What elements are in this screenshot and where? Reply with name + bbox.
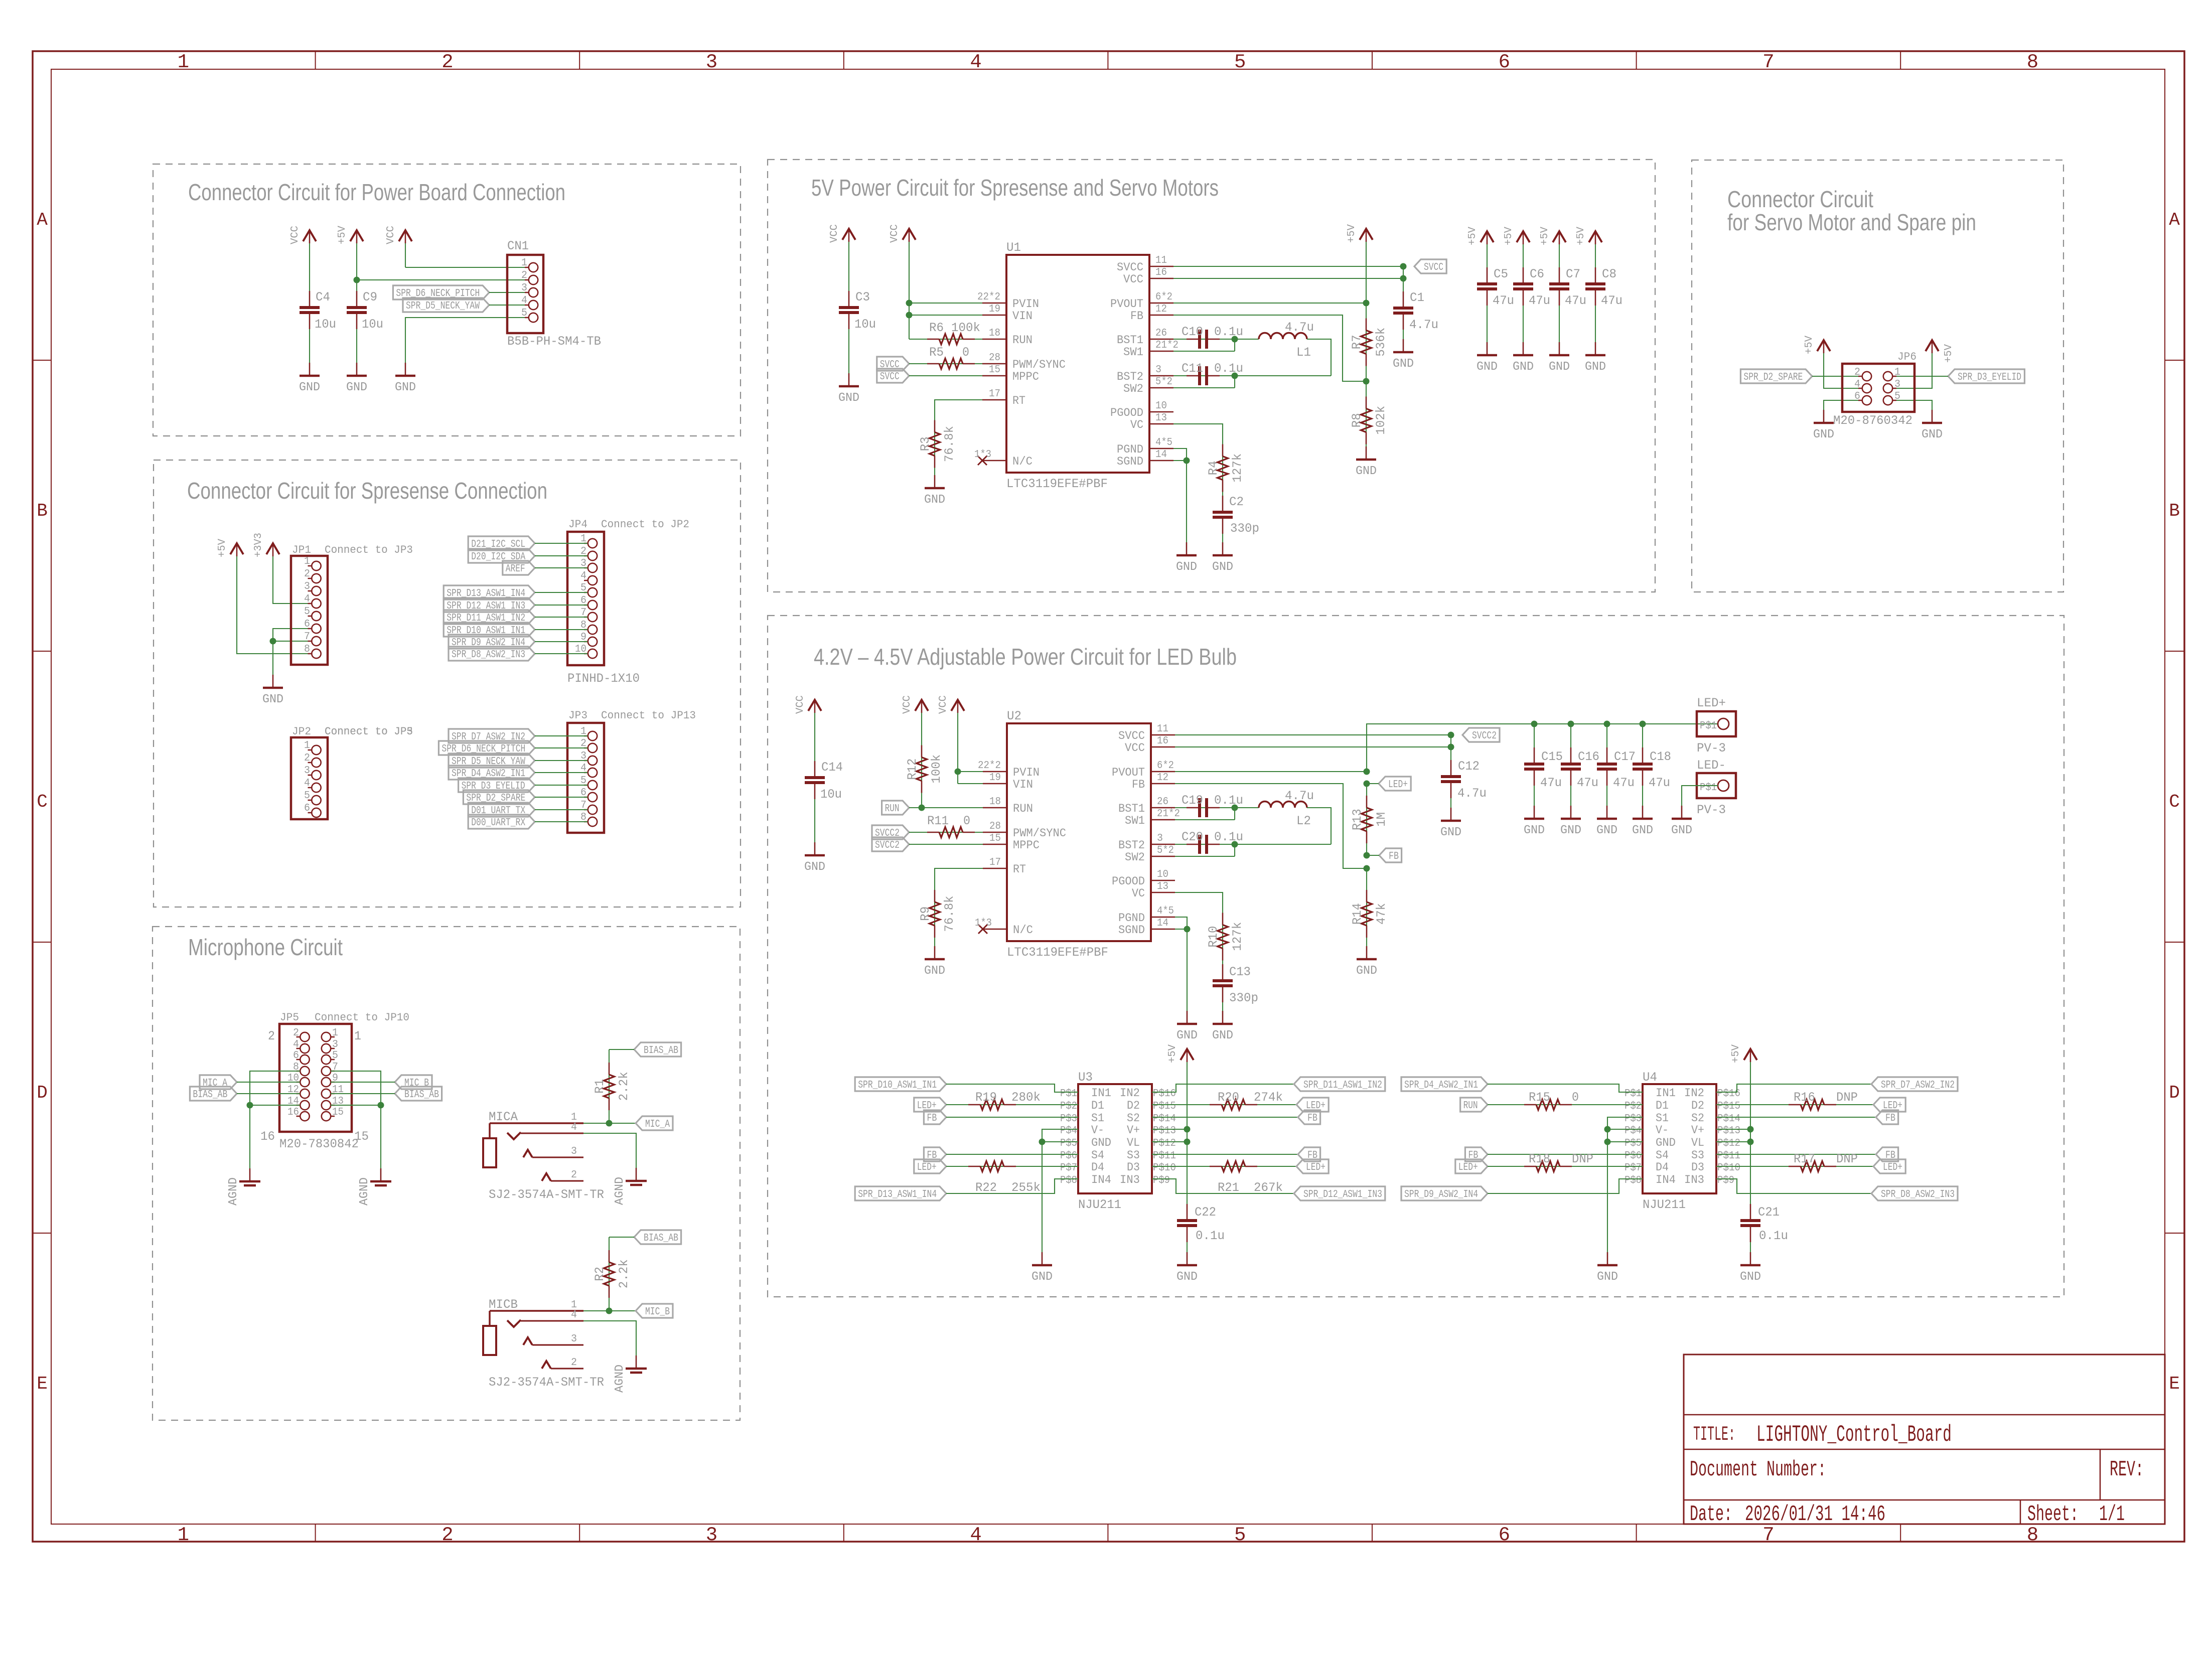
wire CN1 pin3 <box>489 292 529 293</box>
svg-text:Connect to JP3: Connect to JP3 <box>325 544 413 556</box>
wire JP5 pin8 to AGND <box>250 1071 300 1181</box>
junction <box>1747 1126 1754 1133</box>
analog ground AGND <box>636 1355 637 1369</box>
IC U1 LTC3119EFE#PBF <box>1006 255 1149 473</box>
resistor R1 2.2k <box>609 1049 610 1123</box>
svg-text:4.7u: 4.7u <box>1457 786 1487 801</box>
svg-text:3: 3 <box>706 51 717 73</box>
resistor R3 76.8k on RT <box>935 400 982 488</box>
svg-text:P$2: P$2 <box>1625 1101 1642 1112</box>
svg-text:R2: R2 <box>593 1267 607 1281</box>
junction <box>354 277 360 283</box>
svg-text:2: 2 <box>441 1524 453 1546</box>
svg-text:4: 4 <box>970 51 981 73</box>
svg-text:N/C: N/C <box>1012 455 1033 468</box>
resistor R6 100k on RUN <box>909 339 982 340</box>
svg-text:D00_UART_RX: D00_UART_RX <box>471 817 525 829</box>
ground under U4 <box>1607 1252 1608 1265</box>
svg-text:GND: GND <box>1356 964 1377 978</box>
svg-text:330p: 330p <box>1230 521 1259 536</box>
svg-text:FB: FB <box>1132 778 1145 791</box>
svg-text:LTC3119EFE#PBF: LTC3119EFE#PBF <box>1007 945 1108 960</box>
svg-text:47u: 47u <box>1577 776 1598 790</box>
wire PVOUT to LED+ net <box>1175 771 1367 772</box>
wire BST1 node to SW1 <box>1234 808 1235 820</box>
svg-text:3: 3 <box>1157 833 1163 844</box>
net flag SPR_D9_ASW2_IN4 <box>1401 1186 1488 1200</box>
svg-text:10: 10 <box>1157 869 1168 880</box>
svg-text:14: 14 <box>1157 918 1168 929</box>
svg-text:GND: GND <box>1031 1270 1053 1284</box>
svg-text:MIC_B: MIC_B <box>645 1306 670 1318</box>
net flag RUN <box>882 801 909 815</box>
svg-text:BST2: BST2 <box>1117 370 1143 383</box>
svg-text:SPR_D4_ASW2_IN1: SPR_D4_ASW2_IN1 <box>1404 1080 1478 1091</box>
svg-text:VC: VC <box>1132 887 1145 900</box>
svg-text:MPPC: MPPC <box>1013 839 1040 852</box>
svg-text:3: 3 <box>571 1333 577 1345</box>
junction <box>1232 841 1238 848</box>
ground under C4 <box>309 363 311 376</box>
svg-text:LED+: LED+ <box>917 1162 937 1173</box>
net flag LED+ <box>914 1098 946 1112</box>
svg-text:S3: S3 <box>1127 1149 1140 1162</box>
connector JP1 <box>291 556 328 665</box>
resistor R22 255k on U3 D4 <box>946 1166 1078 1167</box>
junction <box>1364 852 1370 859</box>
svg-text:1*3: 1*3 <box>975 918 992 929</box>
ground under C14 <box>814 842 816 855</box>
connector CN1 <box>507 255 543 333</box>
svg-text:PGND: PGND <box>1118 912 1145 925</box>
analog ground AGND <box>249 1168 251 1181</box>
wire CN1 pin5 to ground <box>405 318 529 376</box>
svg-text:10u: 10u <box>315 317 336 332</box>
net flag SPR_D7_ASW2_IN2 <box>449 729 535 743</box>
VCC supply arrow <box>309 242 310 308</box>
svg-text:U1: U1 <box>1006 240 1021 255</box>
svg-text:P$3: P$3 <box>1060 1113 1077 1125</box>
svg-text:GND: GND <box>1477 360 1498 374</box>
wire PVOUT to +5V <box>1173 303 1366 304</box>
wire BST1 node to SW1 <box>1234 339 1235 351</box>
svg-text:SPR_D11_ASW1_IN2: SPR_D11_ASW1_IN2 <box>1303 1080 1382 1091</box>
svg-text:GND: GND <box>1513 360 1534 374</box>
ground under C18 <box>1642 806 1644 819</box>
wire U3 P$8 IN4 <box>946 1179 1078 1193</box>
capacitor C8 47u <box>1595 289 1596 355</box>
wire U4 P$11 S3 <box>1716 1154 1876 1155</box>
net flag BIAS_AB <box>190 1087 237 1101</box>
svg-text:Connector Circuit for Power Bo: Connector Circuit for Power Board Connec… <box>188 179 565 205</box>
wire FB pin route <box>1175 784 1367 868</box>
wire U4 P$9 IN3 <box>1716 1179 1871 1193</box>
svg-text:V-: V- <box>1091 1124 1104 1137</box>
svg-text:Microphone Circuit: Microphone Circuit <box>188 934 343 960</box>
wire LED- to ground <box>1682 786 1718 819</box>
junction <box>1184 458 1190 464</box>
wire MPPC <box>909 375 982 376</box>
svg-text:NJU211: NJU211 <box>1643 1197 1686 1212</box>
svg-text:4: 4 <box>580 570 586 582</box>
net flag SVCC <box>877 369 909 383</box>
svg-text:Sheet:: Sheet: <box>2027 1502 2079 1527</box>
svg-text:17: 17 <box>989 388 1000 400</box>
svg-text:P$5: P$5 <box>1060 1138 1077 1149</box>
svg-text:N/C: N/C <box>1013 924 1033 937</box>
svg-text:L2: L2 <box>1296 814 1311 828</box>
svg-text:PVOUT: PVOUT <box>1110 297 1143 311</box>
svg-text:76.8k: 76.8k <box>942 426 957 462</box>
svg-text:R14: R14 <box>1350 903 1365 925</box>
junction <box>1448 744 1454 750</box>
net flag BIAS_AB <box>634 1230 681 1244</box>
ground under JP1 <box>272 675 274 688</box>
svg-text:C21: C21 <box>1758 1205 1780 1220</box>
svg-text:R19: R19 <box>975 1090 997 1105</box>
svg-text:P$2: P$2 <box>1060 1101 1077 1112</box>
wire JP5 pin14 <box>250 1105 300 1106</box>
svg-text:7: 7 <box>304 631 310 643</box>
junction <box>955 769 961 775</box>
section box: Microphone Circuit <box>153 927 740 1420</box>
section box: 5V Power Circuit for Spresense and Servo Motors <box>768 160 1655 592</box>
net flag BIAS_AB <box>634 1042 681 1057</box>
svg-text:PWM/SYNC: PWM/SYNC <box>1012 358 1066 371</box>
svg-text:5: 5 <box>521 308 527 319</box>
svg-text:C2: C2 <box>1229 495 1244 509</box>
net flag MIC_B <box>395 1075 432 1089</box>
svg-text:2: 2 <box>521 270 527 281</box>
wire U3 P$11 S3 <box>1152 1154 1298 1155</box>
wire VIN <box>958 783 983 784</box>
svg-text:A: A <box>2169 210 2180 230</box>
junction <box>1232 805 1238 811</box>
junction <box>1364 865 1370 872</box>
ground under C7 <box>1559 342 1560 355</box>
svg-text:0: 0 <box>963 814 970 828</box>
svg-text:C7: C7 <box>1566 267 1580 281</box>
svg-text:4.7u: 4.7u <box>1409 318 1438 332</box>
svg-text:Date:: Date: <box>1690 1502 1732 1527</box>
ground under C5 <box>1487 342 1488 355</box>
svg-text:SPR_D8_ASW2_IN3: SPR_D8_ASW2_IN3 <box>452 649 525 661</box>
svg-text:+5V: +5V <box>1804 336 1815 354</box>
svg-text:2: 2 <box>1854 367 1860 378</box>
svg-text:21*2: 21*2 <box>1157 808 1180 820</box>
resistor R11 0 on PWM/SYNC <box>909 832 983 833</box>
capacitor C1 <box>1403 313 1404 352</box>
svg-text:+5V: +5V <box>337 226 348 244</box>
resistor R19 280k on U3 D1 <box>946 1104 1078 1105</box>
capacitor C4 <box>309 313 310 376</box>
svg-text:C: C <box>2169 792 2180 812</box>
wire JP5 pin13 <box>331 1105 381 1106</box>
svg-text:BST1: BST1 <box>1118 802 1145 815</box>
inductor L2 4.7u <box>1235 807 1259 808</box>
wire U4 V+ <box>1716 1129 1750 1130</box>
+5V supply arrow for U3 <box>1187 1062 1188 1221</box>
svg-text:3: 3 <box>521 282 527 294</box>
svg-text:FB: FB <box>927 1113 937 1124</box>
net flag AREF <box>503 561 535 575</box>
svg-text:LTC3119EFE#PBF: LTC3119EFE#PBF <box>1006 477 1108 491</box>
svg-text:GND: GND <box>299 381 320 394</box>
net flag SPR_D6_NECK_PITCH <box>393 285 489 299</box>
wire <box>535 641 587 642</box>
svg-text:15: 15 <box>989 364 1000 376</box>
capacitor C20 0.1u on BST2 <box>1175 844 1331 845</box>
svg-text:+5V: +5V <box>1730 1044 1742 1063</box>
net flag FB <box>924 1110 946 1124</box>
svg-text:RUN: RUN <box>1013 802 1033 815</box>
analog ground AGND <box>380 1168 382 1181</box>
svg-text:S2: S2 <box>1691 1112 1704 1125</box>
svg-text:SVCC: SVCC <box>1424 262 1443 273</box>
junction <box>270 638 276 645</box>
svg-text:VCC: VCC <box>938 695 949 714</box>
svg-text:BIAS_AB: BIAS_AB <box>404 1089 439 1101</box>
wire RUN <box>909 807 983 808</box>
VCC supply arrow <box>405 242 406 267</box>
svg-text:+5V: +5V <box>1503 227 1515 245</box>
svg-text:PVIN: PVIN <box>1013 766 1040 779</box>
svg-text:E: E <box>2169 1374 2180 1394</box>
svg-text:GND: GND <box>1393 357 1414 371</box>
ground under C15 <box>1534 806 1535 819</box>
wire JP1 pin7 <box>273 641 311 642</box>
svg-text:RUN: RUN <box>1463 1100 1478 1112</box>
net flag SPR_D6_NECK_PITCH <box>438 741 535 755</box>
junction <box>1448 732 1454 738</box>
svg-text:100k: 100k <box>951 321 980 335</box>
capacitor C18 47u on LED+ rail <box>1642 724 1643 764</box>
+5V supply arrow <box>1892 353 1932 388</box>
svg-text:R9: R9 <box>918 907 933 921</box>
resistor R5 0 on PWM/SYNC <box>909 363 982 364</box>
svg-text:FB: FB <box>1389 851 1399 862</box>
svg-text:VCC: VCC <box>829 224 840 243</box>
svg-text:P$1: P$1 <box>1060 1088 1077 1100</box>
junction <box>1184 926 1191 933</box>
svg-text:B: B <box>2169 501 2180 521</box>
net flag FB <box>1298 1110 1320 1124</box>
junction <box>606 1120 613 1127</box>
svg-text:5V Power Circuit for Spresense: 5V Power Circuit for Spresense and Servo… <box>811 175 1219 201</box>
junction <box>1604 721 1610 727</box>
svg-text:11: 11 <box>1157 723 1168 735</box>
svg-text:5*2: 5*2 <box>1157 845 1174 856</box>
svg-text:RUN: RUN <box>1012 334 1033 347</box>
svg-text:FB: FB <box>1307 1113 1317 1124</box>
svg-text:GND: GND <box>1091 1136 1111 1149</box>
ground under R14 <box>1366 946 1368 959</box>
svg-text:+5V: +5V <box>217 539 228 557</box>
wire PGND to ground <box>1175 917 1187 1024</box>
net flag LED+ <box>1296 1159 1329 1173</box>
svg-text:M20-7830842: M20-7830842 <box>279 1137 359 1151</box>
svg-text:B5B-PH-SM4-TB: B5B-PH-SM4-TB <box>507 334 601 349</box>
svg-text:4: 4 <box>521 295 527 307</box>
svg-text:D1: D1 <box>1091 1099 1104 1112</box>
svg-text:SVCC: SVCC <box>1118 729 1145 742</box>
svg-text:SVCC: SVCC <box>1117 261 1143 274</box>
net flag SPR_D7_ASW2_IN2 <box>1871 1077 1958 1091</box>
svg-text:R18: R18 <box>1529 1152 1550 1166</box>
svg-text:SVCC2: SVCC2 <box>1472 730 1497 742</box>
svg-text:R5: R5 <box>929 345 944 360</box>
svg-text:BIAS_AB: BIAS_AB <box>644 1045 678 1057</box>
svg-text:16: 16 <box>287 1107 299 1118</box>
net flag SPR_D4_ASW2_IN1 <box>1401 1077 1488 1091</box>
resistor R17 DNP on U4 D3 <box>1716 1166 1873 1167</box>
svg-text:28: 28 <box>989 821 1001 832</box>
ground <box>1932 410 1933 423</box>
svg-text:2: 2 <box>571 1357 577 1369</box>
wire FB <box>1173 315 1366 381</box>
wire SW2 <box>1175 856 1235 857</box>
svg-text:GND: GND <box>1656 1136 1676 1149</box>
svg-text:JP5: JP5 <box>280 1011 299 1024</box>
wire JP5 pin7 to AGND <box>331 1071 381 1181</box>
svg-text:C9: C9 <box>363 290 377 305</box>
section box: Connector Circuit for Spresense Connection <box>154 460 741 907</box>
svg-text:4*5: 4*5 <box>1157 906 1174 917</box>
svg-text:P$7: P$7 <box>1060 1162 1077 1174</box>
capacitor C14 <box>814 783 815 855</box>
svg-text:3: 3 <box>332 1039 338 1050</box>
svg-text:R22: R22 <box>975 1180 997 1195</box>
svg-text:SVCC2: SVCC2 <box>875 840 900 851</box>
svg-text:GND: GND <box>1356 465 1377 478</box>
svg-text:R21: R21 <box>1218 1180 1239 1195</box>
svg-text:AGND: AGND <box>227 1177 240 1205</box>
svg-text:GND: GND <box>1560 824 1581 837</box>
svg-text:4: 4 <box>304 593 310 605</box>
svg-text:12: 12 <box>1155 304 1167 315</box>
svg-text:GND: GND <box>1585 360 1606 374</box>
svg-text:Document Number:: Document Number: <box>1690 1457 1826 1482</box>
svg-text:BST1: BST1 <box>1117 334 1143 347</box>
svg-text:10: 10 <box>1155 400 1167 412</box>
junction <box>1363 378 1370 385</box>
svg-text:RUN: RUN <box>885 803 900 815</box>
wire <box>535 735 587 736</box>
svg-text:PV-3: PV-3 <box>1697 741 1726 756</box>
net flag SPR_D3_EYELID <box>1948 369 2024 383</box>
svg-text:11: 11 <box>1155 255 1167 266</box>
svg-text:76.8k: 76.8k <box>942 896 957 932</box>
svg-text:3: 3 <box>1155 364 1161 376</box>
wire SGND <box>1173 460 1187 461</box>
resistor R21 267k on U3 D3 <box>1152 1166 1296 1167</box>
svg-text:P$1: P$1 <box>1700 720 1717 732</box>
svg-text:VCC: VCC <box>385 226 397 244</box>
svg-text:L1: L1 <box>1296 345 1311 360</box>
wire JP1 pin6 to ground <box>273 629 311 676</box>
svg-text:3: 3 <box>304 765 310 777</box>
svg-text:JP3: JP3 <box>568 709 587 722</box>
capacitor C6 47u <box>1523 289 1524 355</box>
wire U3 P$5 GND <box>1042 1141 1078 1142</box>
svg-text:5: 5 <box>304 606 310 618</box>
svg-text:P$13: P$13 <box>1717 1125 1740 1137</box>
net flag LED+ <box>1455 1159 1488 1173</box>
ground under C22 <box>1187 1252 1188 1265</box>
svg-text:6: 6 <box>1499 51 1510 73</box>
wire <box>331 1093 395 1094</box>
frame zone row ticks <box>33 360 51 361</box>
wire CN1 pin4 <box>489 305 529 306</box>
ground under PGND <box>1187 1011 1188 1024</box>
svg-text:GND: GND <box>924 493 945 507</box>
svg-text:C13: C13 <box>1229 965 1251 979</box>
svg-text:330p: 330p <box>1229 991 1258 1005</box>
wire U4 P$1 IN1 <box>1488 1084 1643 1092</box>
ground under C1 <box>1403 339 1404 352</box>
svg-text:GND: GND <box>1212 1029 1233 1042</box>
svg-text:1: 1 <box>304 740 310 751</box>
ground under U3 <box>1042 1252 1043 1265</box>
svg-text:16: 16 <box>1157 735 1168 747</box>
junction <box>1184 1139 1191 1145</box>
svg-text:12: 12 <box>1157 772 1168 784</box>
wire <box>535 555 587 556</box>
wire L1 to SW2 node <box>1307 339 1331 376</box>
net flag LED+ <box>1296 1098 1329 1112</box>
svg-text:6: 6 <box>293 1050 299 1062</box>
svg-text:47u: 47u <box>1493 293 1514 308</box>
svg-text:6: 6 <box>304 619 310 630</box>
svg-text:LED+: LED+ <box>1883 1162 1902 1173</box>
svg-text:536k: 536k <box>1374 328 1388 357</box>
svg-text:5*2: 5*2 <box>1155 376 1172 388</box>
svg-text:P$12: P$12 <box>1153 1138 1176 1149</box>
junction <box>1604 1126 1611 1133</box>
svg-text:R17: R17 <box>1794 1152 1815 1166</box>
ground under PGND <box>1186 542 1188 555</box>
svg-text:LIGHTONY_Control_Board: LIGHTONY_Control_Board <box>1756 1422 1952 1448</box>
svg-text:SW1: SW1 <box>1125 814 1145 827</box>
svg-text:3: 3 <box>1894 379 1900 390</box>
svg-text:D: D <box>2169 1083 2180 1103</box>
svg-text:C19: C19 <box>1182 793 1203 808</box>
svg-text:R7: R7 <box>1350 335 1364 349</box>
section box: 4.2V - 4.5V Adjustable Power Circuit for LED Bulb <box>768 616 2064 1297</box>
wire <box>535 629 587 630</box>
junction <box>1232 336 1238 343</box>
svg-text:VL: VL <box>1127 1136 1140 1149</box>
svg-text:SW2: SW2 <box>1123 382 1143 395</box>
IC U2 LTC3119EFE#PBF <box>1007 723 1151 941</box>
wire U3 P$9 IN3 <box>1152 1179 1294 1193</box>
capacitor C22 0.1u <box>1187 1226 1188 1265</box>
VCC supply arrow <box>814 712 815 778</box>
ground <box>405 363 406 376</box>
resistor R2 2.2k <box>609 1237 610 1311</box>
wire <box>535 772 587 773</box>
net flag RUN <box>1460 1098 1488 1112</box>
ground <box>1823 410 1825 423</box>
svg-text:1: 1 <box>178 1524 189 1546</box>
wire <box>237 1093 300 1094</box>
net flag SPR_D13_ASW1_IN4 <box>855 1186 946 1200</box>
svg-text:C8: C8 <box>1602 267 1616 281</box>
svg-text:U4: U4 <box>1643 1070 1657 1085</box>
svg-text:4.7u: 4.7u <box>1285 789 1314 803</box>
svg-text:255k: 255k <box>1011 1180 1041 1195</box>
svg-text:0.1u: 0.1u <box>1196 1229 1225 1243</box>
